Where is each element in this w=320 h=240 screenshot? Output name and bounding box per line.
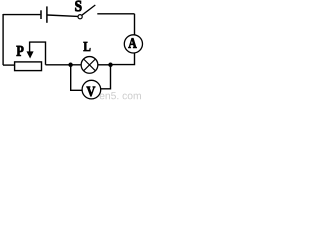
voltmeter V1 circle bbox=[82, 80, 101, 99]
lamp L circle bbox=[81, 57, 98, 74]
battery cell B1 negative plate (short) bbox=[40, 10, 42, 19]
wire slider over-bridge bbox=[30, 42, 46, 65]
voltmeter letter V bbox=[87, 87, 96, 96]
wire right vertical into ammeter bbox=[134, 14, 136, 35]
wire battery to switch bbox=[47, 15, 78, 16]
wire left voltmeter branch bbox=[71, 65, 83, 91]
battery cell B1 positive plate (long) bbox=[46, 6, 48, 22]
ammeter letter A bbox=[128, 38, 136, 48]
lamp L cross diagonals bbox=[84, 59, 96, 71]
wire top-left horizontal bbox=[3, 14, 40, 16]
wire left vertical bbox=[2, 14, 4, 65]
label P bbox=[17, 46, 24, 56]
wire bottom-left horizontal bbox=[3, 64, 15, 66]
switch S blade (open) bbox=[82, 5, 95, 15]
label S bbox=[75, 1, 81, 11]
rheostat P box bbox=[15, 62, 42, 71]
rheostat slider arrow bbox=[27, 51, 34, 58]
wire lamp to right junction bbox=[98, 64, 111, 66]
label L bbox=[84, 42, 91, 51]
wire slider stem bbox=[29, 42, 31, 53]
node right junction dot bbox=[108, 63, 113, 68]
ammeter A1 circle bbox=[124, 35, 142, 53]
wire right voltmeter branch bbox=[101, 65, 111, 89]
node left junction dot bbox=[68, 63, 73, 68]
wire switch to top-right corner bbox=[97, 13, 134, 15]
watermark text bbox=[100, 92, 141, 99]
switch S pivot circle bbox=[78, 15, 82, 19]
wire main horizontal rheostat to lamp bbox=[46, 64, 82, 66]
wire ammeter bottom to corner to right junction bbox=[111, 53, 135, 65]
